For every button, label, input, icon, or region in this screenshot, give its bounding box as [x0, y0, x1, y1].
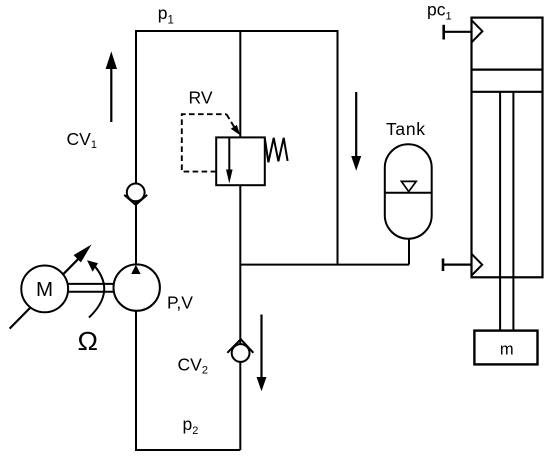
rotation arc Omega: [87, 260, 104, 317]
wire bottom p2 rail: [135, 449, 240, 451]
mass m block: [474, 331, 537, 365]
motor M: [21, 266, 68, 313]
svg-text:Tank: Tank: [386, 119, 425, 139]
relief valve RV: [182, 114, 288, 185]
accumulator gas triangle: [401, 181, 416, 191]
wire right vertical drop: [337, 30, 339, 265]
cylinder barrel: [472, 18, 543, 331]
check valve CV1: [124, 184, 147, 205]
wire left vertical (pump/CV1 branch): [135, 30, 137, 450]
svg-text:Ω: Ω: [78, 326, 99, 356]
wire accumulator stem: [408, 238, 410, 265]
piston bottom line: [472, 91, 543, 93]
RV body: [216, 137, 265, 185]
svg-text:m: m: [500, 341, 514, 359]
piston top line: [472, 68, 543, 70]
arrow flow-down right drop: [351, 92, 361, 171]
svg-text:M: M: [36, 278, 53, 301]
piston rod lines: [499, 92, 501, 331]
check valve CV2: [227, 339, 253, 362]
arrow flow-down CV2: [257, 315, 267, 392]
pump P,V: [114, 264, 160, 310]
svg-text:P,V: P,V: [167, 293, 193, 313]
port pc1 top: [444, 20, 483, 42]
port bottom: [443, 254, 482, 276]
wire middle vertical (RV/CV2 branch): [239, 30, 241, 450]
wire mid horizontal to accumulator: [240, 264, 409, 266]
wire top p1 rail: [136, 30, 338, 32]
arrow flow-up CV1: [106, 53, 116, 122]
motor-pump diagonal displacement arrow: [10, 245, 92, 329]
RV spring: [265, 138, 288, 163]
accumulator separator line: [385, 192, 432, 194]
svg-text:RV: RV: [189, 88, 213, 108]
RV pilot dashed line: [182, 114, 235, 171]
accumulator Tank: [385, 144, 432, 239]
pump triangle: [131, 265, 140, 274]
RV pilot arrowhead: [231, 125, 240, 135]
RV internal flow arrow: [228, 137, 230, 172]
shaft motor-pump: [66, 284, 114, 292]
